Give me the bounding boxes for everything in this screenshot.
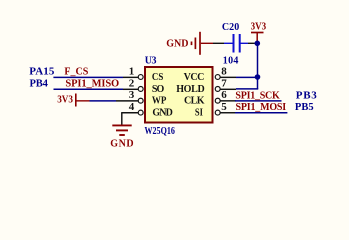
svg-text:GND: GND [152, 108, 172, 119]
svg-text:GND: GND [166, 38, 188, 49]
svg-text:PB4: PB4 [30, 79, 49, 90]
svg-text:3: 3 [129, 89, 135, 101]
svg-text:U3: U3 [145, 56, 157, 67]
svg-text:SPI1_MISO: SPI1_MISO [65, 79, 119, 90]
svg-text:4: 4 [129, 101, 135, 113]
svg-text:6: 6 [221, 89, 227, 101]
svg-text:SPI1_SCK: SPI1_SCK [235, 90, 280, 101]
svg-text:W25Q16: W25Q16 [145, 125, 176, 136]
svg-text:1: 1 [129, 66, 135, 78]
svg-text:SO: SO [152, 84, 165, 95]
svg-text:C20: C20 [222, 22, 239, 33]
svg-text:HOLD: HOLD [176, 84, 205, 95]
svg-text:SI: SI [195, 108, 203, 119]
svg-text:3V3: 3V3 [251, 22, 267, 33]
svg-text:PA15: PA15 [29, 66, 55, 78]
svg-text:7: 7 [221, 78, 227, 90]
svg-text:WP: WP [152, 96, 167, 107]
svg-text:PB5: PB5 [295, 102, 314, 113]
svg-text:GND: GND [110, 139, 133, 150]
svg-text:PB3: PB3 [296, 89, 318, 101]
svg-text:VCC: VCC [184, 72, 205, 83]
svg-text:8: 8 [221, 66, 227, 78]
svg-text:SPI1_MOSI: SPI1_MOSI [236, 102, 287, 113]
svg-text:5: 5 [221, 101, 227, 113]
svg-text:3V3: 3V3 [57, 94, 73, 105]
svg-text:CS: CS [152, 73, 163, 84]
svg-text:2: 2 [129, 78, 135, 90]
svg-text:CLK: CLK [184, 96, 205, 107]
svg-text:F_CS: F_CS [64, 67, 88, 78]
